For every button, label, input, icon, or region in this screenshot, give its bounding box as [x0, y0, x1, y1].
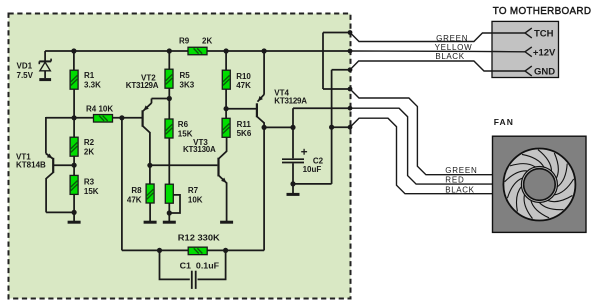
svg-text:R2: R2: [84, 138, 95, 147]
wire VT4 collector node y=127: [264, 126, 293, 128]
ground under R7: [168, 220, 170, 222]
circuit board enclosure (dashed): [9, 14, 351, 299]
wire base net y=118 (R1/R2 junction to VT2 base through R4): [46, 117, 142, 119]
svg-text:GND: GND: [534, 66, 555, 77]
wire VT4 base: [226, 108, 256, 110]
wire YELLOW to motherboard: [350, 50, 525, 53]
wire tach passthrough loop: [323, 32, 350, 34]
svg-text:C1 0.1uF: C1 0.1uF: [180, 261, 220, 270]
resistor R2: [73, 118, 75, 138]
border node dots: [348, 30, 353, 35]
pin TCH: [492, 32, 525, 34]
svg-text:KT3129A: KT3129A: [126, 81, 159, 90]
svg-text:R3: R3: [84, 177, 95, 186]
svg-text:R6: R6: [178, 120, 189, 129]
resistor R3: [73, 165, 75, 175]
wire +12V top rail: [45, 50, 350, 52]
svg-text:VD1: VD1: [17, 62, 33, 71]
svg-text:TO MOTHERBOARD: TO MOTHERBOARD: [493, 5, 592, 17]
resistor R7: [165, 184, 173, 203]
resistor R5: [168, 51, 170, 69]
svg-text:3K3: 3K3: [180, 80, 195, 89]
svg-text:FAN: FAN: [494, 117, 514, 127]
svg-text:R10: R10: [236, 72, 251, 81]
transistor VT3 (KT3130A): [217, 158, 219, 177]
svg-text:YELLOW: YELLOW: [435, 43, 473, 52]
motherboard connector box: [492, 21, 559, 77]
svg-text:3.3K: 3.3K: [84, 80, 101, 89]
svg-text:10uF: 10uF: [303, 165, 322, 174]
resistor R9: [188, 47, 207, 55]
ground under VT3: [226, 220, 228, 222]
transistor VT4 (KT3129A): [256, 103, 258, 117]
ground bar under VD1: [39, 78, 51, 81]
resistor R11: [225, 109, 227, 119]
svg-text:KT3130A: KT3130A: [183, 145, 216, 154]
svg-text:RED: RED: [445, 176, 464, 185]
svg-text:47K: 47K: [127, 195, 142, 204]
capacitor C2 (electrolytic): [292, 108, 294, 158]
svg-text:R9: R9: [179, 37, 190, 46]
resistor R1: [73, 51, 75, 70]
wire VT1 emitter drop: [45, 117, 47, 154]
wire R6 bottom to R7 top (crosses VT3 base): [168, 138, 170, 184]
resistor R8: [146, 184, 154, 203]
wire output drop to bottom rail: [263, 127, 265, 250]
fan housing: [493, 136, 587, 232]
svg-text:BLACK: BLACK: [445, 185, 474, 194]
svg-text:5K6: 5K6: [237, 129, 252, 138]
svg-text:GREEN: GREEN: [436, 34, 468, 43]
svg-text:15K: 15K: [178, 129, 193, 138]
svg-text:10K: 10K: [188, 195, 203, 204]
wire GREEN to motherboard: [350, 33, 525, 42]
fan hub: [521, 167, 557, 203]
wire tach net to border (RED node): [293, 107, 350, 109]
wire ground net tap to border y=127: [332, 126, 350, 128]
svg-text:47K: 47K: [236, 81, 251, 90]
pin +12V: [492, 51, 525, 53]
pin GND: [492, 70, 525, 72]
svg-text:TCH: TCH: [534, 28, 554, 39]
svg-text:R5: R5: [180, 71, 191, 80]
wire RED to fan: [350, 108, 493, 184]
wire bottom rail (R12 net): [122, 249, 264, 251]
svg-text:BLACK: BLACK: [435, 52, 464, 61]
C2 plus sign: [301, 151, 307, 153]
wire GREEN to fan: [350, 89, 493, 175]
svg-text:2K: 2K: [84, 148, 94, 157]
resistor R12: [188, 247, 207, 255]
resistor R4: [94, 115, 113, 123]
svg-text:C2: C2: [313, 157, 324, 166]
wire base-net drop on left: [121, 118, 123, 251]
junction dots: [71, 48, 76, 53]
svg-text:2K: 2K: [202, 37, 212, 46]
svg-text:7.5V: 7.5V: [17, 71, 34, 80]
wire ground net vertical x=331.6: [293, 183, 332, 185]
resistor R6: [168, 99, 170, 120]
fan impeller: [503, 149, 575, 221]
transistor VT1 (KT814B): [52, 158, 54, 173]
svg-text:R1: R1: [84, 71, 95, 80]
transistor VT2 (KT3129A): [142, 110, 144, 126]
wire BLACK to fan: [350, 118, 493, 194]
svg-text:R12 330K: R12 330K: [178, 233, 220, 242]
svg-text:KT3129A: KT3129A: [274, 97, 307, 106]
ground under R8: [149, 220, 151, 222]
svg-text:R8: R8: [131, 186, 142, 195]
zener diode VD1: [44, 51, 46, 61]
ground under R3: [73, 212, 75, 221]
svg-text:+12V: +12V: [533, 47, 556, 58]
R7 wiper bracket: [169, 195, 181, 213]
svg-text:R7: R7: [188, 186, 199, 195]
svg-text:15K: 15K: [84, 187, 99, 196]
svg-text:GREEN: GREEN: [445, 166, 477, 175]
ground under C2: [292, 184, 294, 193]
wire BLACK to motherboard: [350, 61, 525, 71]
svg-text:KT814B: KT814B: [16, 161, 46, 170]
wire VT3 base from VT2 collector: [150, 164, 218, 166]
resistor R10: [225, 51, 227, 70]
svg-text:R11: R11: [237, 120, 252, 129]
svg-text:R4 10K: R4 10K: [86, 104, 113, 113]
capacitor C1: [160, 250, 190, 279]
